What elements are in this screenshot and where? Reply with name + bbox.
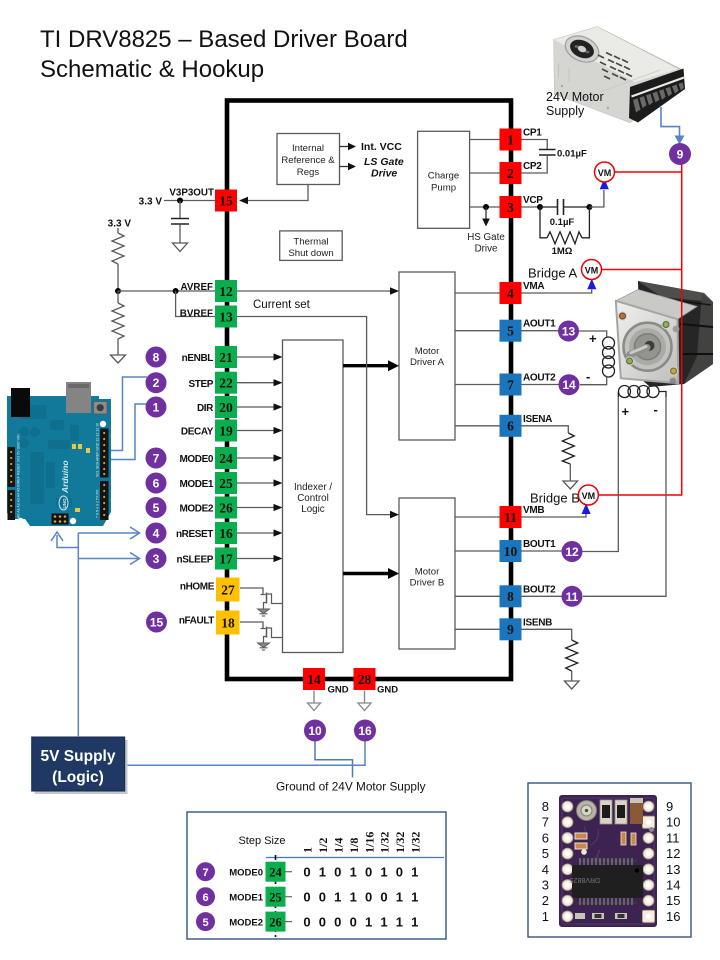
svg-text:Ground of 24V Motor Supply: Ground of 24V Motor Supply — [276, 780, 426, 794]
resistor 1M ohm on VCP — [540, 207, 589, 257]
svg-text:-: - — [654, 402, 658, 417]
svg-text:VM: VM — [598, 168, 612, 178]
svg-text:SCL SDA AREF GND 13 12 11 10: SCL SDA AREF GND 13 12 11 10 — [96, 423, 100, 477]
svg-text:+: + — [589, 331, 597, 346]
wire AOUT2 pin7 to node 14 — [522, 384, 559, 386]
svg-text:11: 11 — [566, 590, 579, 604]
table bits MODE0 row — [303, 865, 418, 880]
wire VMB pin11 to motor driver B — [455, 516, 500, 518]
pin label GND 28 — [377, 685, 398, 696]
svg-text:18: 18 — [221, 616, 235, 631]
svg-text:15: 15 — [219, 193, 233, 208]
svg-text:13: 13 — [666, 862, 680, 877]
svg-text:1/32: 1/32 — [409, 832, 423, 853]
svg-text:12: 12 — [219, 284, 233, 299]
svg-text:VMB: VMB — [523, 505, 544, 516]
svg-text:VM: VM — [582, 491, 596, 501]
svg-text:24: 24 — [219, 451, 233, 466]
svg-text:IOREF RESET 3V3 5V GND VIN: IOREF RESET 3V3 5V GND VIN — [17, 434, 21, 487]
svg-text:AOUT2: AOUT2 — [523, 373, 556, 384]
svg-text:13: 13 — [562, 325, 576, 339]
pin 16 nRESET — [215, 522, 237, 544]
svg-text:Regs: Regs — [297, 167, 320, 178]
table label MODE1 — [229, 893, 264, 904]
pin 7 AOUT2 — [500, 374, 522, 396]
ground under transistor nHOME — [258, 609, 270, 616]
arduino uno board photo — [7, 382, 111, 526]
svg-text:0: 0 — [365, 865, 372, 880]
svg-text:Indexer /: Indexer / — [294, 482, 332, 493]
wire BOUT1 pin10 to node 12 — [522, 550, 563, 552]
svg-text:nHOME: nHOME — [180, 582, 215, 593]
svg-text:26: 26 — [219, 500, 233, 515]
svg-text:0: 0 — [334, 865, 341, 880]
pin label nFAULT — [179, 616, 214, 627]
svg-text:1: 1 — [334, 890, 341, 905]
svg-text:BVREF: BVREF — [180, 309, 213, 320]
pin label VCP — [523, 195, 543, 206]
table header 1 — [301, 847, 315, 853]
wire coil A to node 14 — [580, 376, 607, 385]
wire nENBL pin21 to indexer — [237, 353, 283, 360]
svg-text:15: 15 — [150, 616, 164, 630]
resistor sense B — [566, 640, 578, 681]
svg-text:12: 12 — [565, 545, 579, 559]
node Current set label — [253, 299, 311, 311]
inductor coil B motor winding — [618, 386, 666, 398]
table bits MODE1 row — [303, 890, 418, 905]
pin 11 VMB — [500, 506, 522, 528]
svg-text:MODE0: MODE0 — [229, 868, 263, 879]
svg-text:MODE2: MODE2 — [229, 917, 263, 928]
wire VMA pin4 to motor driver A — [455, 292, 500, 294]
svg-text:1/4: 1/4 — [332, 838, 346, 853]
node 6 table — [196, 887, 215, 906]
pin label AVREF — [181, 282, 213, 293]
wire BOUT2 pin8 to node 11 — [522, 595, 562, 597]
svg-text:15: 15 — [666, 893, 680, 908]
pin label DIR — [197, 403, 214, 414]
arrow LS Gate Drive — [340, 156, 404, 180]
node dot VCP right — [586, 204, 592, 210]
svg-text:VMA: VMA — [523, 281, 544, 292]
node 9 VM supply — [669, 143, 691, 165]
svg-text:0: 0 — [319, 890, 326, 905]
pin 1 CP1 — [500, 129, 522, 151]
wire charge pump to pin 2 — [470, 172, 500, 174]
wire 3.3V to pin 15 — [164, 200, 215, 202]
wire node 16 to 5V supply — [128, 742, 366, 766]
svg-text:25: 25 — [269, 891, 282, 905]
arrow HS Gate Drive — [467, 207, 505, 255]
pin 22 STEP — [215, 372, 237, 394]
minus polarity coil B — [654, 402, 658, 417]
node 11 BOUT2 — [562, 586, 583, 607]
wire MODE1 pin25 to indexer — [237, 479, 283, 486]
node 5 MODE2 — [146, 497, 167, 518]
node Bridge B label — [530, 491, 580, 506]
pin 20 DIR — [215, 396, 237, 418]
wire red VM top to trunk — [615, 171, 682, 173]
svg-text:17: 17 — [219, 551, 233, 566]
pin 18 nFAULT — [216, 611, 240, 635]
transistor open-drain nFAULT — [261, 627, 283, 643]
svg-text:nENBL: nENBL — [182, 353, 214, 364]
svg-text:DIR: DIR — [197, 403, 214, 414]
svg-text:CP2: CP2 — [523, 161, 542, 172]
table pin 26 MODE2 — [266, 912, 293, 932]
table header 1/32 c — [409, 832, 423, 853]
svg-text:0: 0 — [334, 914, 341, 929]
board pin numbers left column — [542, 799, 549, 924]
svg-text:0: 0 — [303, 865, 310, 880]
table header 1/16 — [362, 832, 376, 853]
pin label BOUT1 — [523, 539, 556, 550]
node 3.3V divider label — [108, 219, 132, 230]
svg-text:+: + — [622, 404, 630, 419]
svg-text:nRESET: nRESET — [176, 529, 213, 540]
svg-text:VCP: VCP — [523, 195, 543, 206]
svg-text:Motor: Motor — [415, 346, 440, 357]
wire BOUT2 from motor driver B — [455, 595, 500, 597]
wire BVREF branch to pin 13 — [176, 291, 215, 317]
pin label VMA — [523, 281, 544, 292]
svg-text:10: 10 — [504, 544, 518, 559]
svg-text:3.3 V: 3.3 V — [139, 197, 163, 208]
wire charge pump to pin 1 — [470, 139, 500, 141]
svg-text:14: 14 — [666, 878, 680, 893]
wire nRESET pin16 to indexer — [237, 529, 283, 536]
resistor divider bottom — [112, 291, 124, 355]
node 5 table — [196, 912, 215, 931]
table pin 24 MODE0 — [266, 862, 293, 882]
svg-text:10: 10 — [308, 724, 322, 738]
wire AVREF rail to pin 12 — [118, 290, 215, 292]
wire node 12 to coil B left lead — [583, 397, 619, 552]
svg-text:1: 1 — [507, 132, 514, 147]
arrow junction up to arduino power — [51, 532, 78, 548]
pin 6 ISENA — [500, 415, 522, 437]
wire STEP pin22 to indexer — [237, 379, 283, 386]
svg-text:Shut down: Shut down — [288, 248, 333, 259]
wire nHOME pin27 to transistor gate — [240, 588, 263, 595]
wire AOUT1 from motor driver A — [455, 330, 500, 332]
svg-text:0: 0 — [319, 914, 326, 929]
wire BVREF to Motor Driver B — [237, 317, 399, 519]
node 7 MODE0 — [146, 448, 167, 469]
node 16 GND — [354, 720, 376, 742]
svg-text:Schematic & Hookup: Schematic & Hookup — [40, 56, 264, 83]
plus polarity coil B — [622, 404, 630, 419]
svg-text:5: 5 — [542, 846, 549, 861]
svg-text:7: 7 — [507, 377, 514, 392]
pin label ISENA — [523, 414, 552, 425]
svg-text:9: 9 — [507, 622, 514, 637]
ground under divider — [111, 355, 126, 363]
svg-text:0: 0 — [380, 890, 387, 905]
svg-text:16: 16 — [358, 724, 372, 738]
svg-text:10: 10 — [666, 815, 680, 830]
svg-text:1: 1 — [411, 914, 418, 929]
pin 10 BOUT1 — [500, 540, 522, 562]
node 14 AOUT2 — [559, 374, 580, 395]
pin label STEP — [188, 379, 213, 390]
wire node 10 to ground label — [315, 742, 353, 778]
svg-text:Thermal: Thermal — [293, 237, 328, 248]
svg-text:A0 A1 A2 A3 A4 A5: A0 A1 A2 A3 A4 A5 — [17, 488, 21, 518]
svg-text:Reference &: Reference & — [281, 155, 335, 166]
node 12 BOUT1 — [562, 541, 583, 562]
pin label MODE2 — [179, 504, 213, 515]
svg-text:5V Supply: 5V Supply — [41, 748, 116, 765]
wire MODE2 pin26 to indexer — [237, 504, 283, 511]
svg-text:Charge: Charge — [428, 171, 459, 182]
svg-text:27: 27 — [221, 583, 235, 598]
svg-text:5: 5 — [153, 501, 160, 515]
table label MODE2 — [229, 917, 263, 928]
ground under transistor nFAULT — [258, 643, 270, 650]
charge pump block — [418, 131, 470, 228]
svg-text:1/8: 1/8 — [347, 838, 361, 853]
pin 17 nSLEEP — [215, 548, 237, 570]
svg-text:24V Motor: 24V Motor — [546, 90, 604, 104]
svg-text:4: 4 — [507, 286, 514, 301]
node junction dot V3P3OUT — [177, 198, 183, 204]
svg-text:Current set: Current set — [253, 299, 311, 311]
svg-text:1: 1 — [301, 847, 315, 853]
inductor coil A motor winding — [603, 337, 615, 377]
svg-text:1: 1 — [380, 865, 387, 880]
wire from Internal Regs to pin 15 — [239, 185, 308, 205]
svg-text:Supply: Supply — [546, 104, 585, 118]
svg-text:UNO: UNO — [62, 498, 67, 508]
svg-text:Bridge A: Bridge A — [528, 266, 577, 281]
svg-text:Control: Control — [297, 493, 329, 504]
wire ISENA pin6 to sense resistor — [522, 426, 569, 433]
wire DECAY pin19 to indexer — [237, 427, 283, 434]
ground under bypass cap — [173, 243, 188, 252]
wire ISENA from motor driver A — [455, 425, 500, 427]
pin label ISENB — [523, 617, 552, 628]
svg-text:6: 6 — [153, 477, 160, 491]
svg-text:1: 1 — [380, 914, 387, 929]
transistor open-drain nHOME — [261, 593, 283, 609]
svg-text:1: 1 — [350, 865, 357, 880]
svg-text:6: 6 — [507, 419, 514, 434]
table header 1/4 — [332, 838, 346, 853]
ground under sense resistor A — [563, 481, 578, 489]
pin 13 BVREF — [215, 306, 237, 328]
svg-text:AVREF: AVREF — [181, 282, 213, 293]
svg-text:2: 2 — [153, 376, 160, 390]
wire nFAULT pin18 to transistor gate — [240, 622, 263, 629]
svg-text:3.3 V: 3.3 V — [108, 219, 132, 230]
svg-text:11: 11 — [666, 830, 680, 845]
svg-text:1/32: 1/32 — [393, 832, 407, 853]
pin label CP1 — [523, 128, 542, 139]
wire node 13 to coil A — [579, 331, 607, 337]
svg-text:7: 7 — [202, 867, 208, 879]
pin 24 MODE0 — [215, 447, 237, 469]
svg-text:1: 1 — [365, 914, 372, 929]
svg-text:0: 0 — [303, 914, 310, 929]
wire VCP out of pin 3 — [522, 206, 541, 208]
svg-text:13: 13 — [219, 309, 233, 324]
svg-text:Drive: Drive — [371, 168, 397, 180]
svg-text:Logic: Logic — [301, 504, 325, 515]
indexer / control logic block — [283, 340, 344, 653]
svg-text:MODE1: MODE1 — [179, 479, 213, 490]
wire 5V supply up to arduino junction — [77, 533, 79, 737]
VM node top (VCP) — [595, 162, 615, 189]
wire AOUT2 from motor driver A — [455, 384, 500, 386]
VM node bridge A — [582, 260, 602, 290]
resistor sense A — [562, 433, 574, 481]
24V motor supply unit photo — [554, 27, 685, 123]
wire AOUT1 pin5 to node 13 — [522, 330, 560, 332]
svg-text:12: 12 — [666, 846, 680, 861]
wire VCP to VM node — [589, 190, 604, 207]
stepper motor photo — [616, 281, 713, 387]
pin label BVREF — [180, 309, 213, 320]
thick bus arrow indexer to motor driver A — [343, 360, 399, 371]
node 13 AOUT1 — [558, 321, 579, 342]
svg-text:Step Size: Step Size — [238, 835, 285, 847]
pin 26 MODE2 — [215, 497, 237, 519]
svg-text:3: 3 — [542, 878, 549, 893]
svg-text:6: 6 — [202, 892, 208, 904]
svg-text:7: 7 — [542, 815, 549, 830]
svg-text:8: 8 — [507, 589, 514, 604]
thermal shutdown block — [280, 231, 343, 261]
svg-text:11: 11 — [504, 510, 517, 525]
capacitor 0.01uF between CP1 CP2 — [522, 140, 587, 174]
5V supply logic box — [32, 737, 128, 794]
svg-text:0: 0 — [303, 890, 310, 905]
svg-text:Driver B: Driver B — [410, 578, 445, 589]
svg-text:16: 16 — [666, 909, 680, 924]
capacitor C-bypass on V3P3OUT — [171, 201, 189, 244]
svg-text:25: 25 — [219, 476, 233, 491]
svg-text:DRV8825: DRV8825 — [570, 876, 600, 883]
svg-text:1: 1 — [319, 865, 326, 880]
svg-text:CP1: CP1 — [523, 128, 542, 139]
table label MODE0 — [229, 868, 263, 879]
svg-text:TI DRV8825 – Based Driver Boar: TI DRV8825 – Based Driver Board — [40, 26, 408, 53]
svg-text:Arduino: Arduino — [60, 460, 70, 494]
pin label nRESET — [176, 529, 213, 540]
pin label DECAY — [181, 427, 214, 438]
wire red VM B to trunk — [598, 494, 681, 496]
arrow GND pin28 down — [358, 691, 371, 711]
arrow Int. VCC — [340, 141, 403, 153]
pin label nHOME — [180, 582, 215, 593]
pin 25 MODE1 — [215, 472, 237, 494]
table header 1/2 — [316, 838, 330, 853]
svg-text:3: 3 — [153, 552, 160, 566]
svg-text:1: 1 — [350, 890, 357, 905]
svg-text:MODE1: MODE1 — [229, 893, 264, 904]
wire red VM trunk vertical — [681, 165, 683, 496]
svg-text:20: 20 — [219, 400, 233, 415]
node 1 DIR — [146, 397, 167, 418]
label 24V Motor Supply — [546, 90, 604, 118]
node 3 nSLEEP — [146, 548, 167, 569]
node 4 nRESET — [146, 523, 167, 544]
pin label AOUT1 — [523, 319, 556, 330]
svg-text:1: 1 — [396, 890, 403, 905]
svg-text:MODE2: MODE2 — [179, 504, 213, 515]
svg-text:28: 28 — [358, 672, 372, 687]
wire red VM A to trunk — [602, 269, 682, 271]
wire arduino to node 2 STEP — [110, 377, 147, 451]
svg-text:24: 24 — [269, 866, 282, 880]
node junction dot AVREF rail — [115, 288, 121, 294]
wire DIR pin20 to indexer — [237, 403, 283, 410]
step size table frame — [187, 812, 446, 939]
table header 1/8 — [347, 838, 361, 853]
node 2 STEP — [146, 372, 167, 393]
node 7 table — [196, 862, 215, 881]
svg-text:Bridge B: Bridge B — [530, 491, 580, 506]
pin 8 BOUT2 — [500, 585, 522, 607]
svg-text:LS Gate: LS Gate — [364, 156, 404, 168]
VM node bridge B — [578, 485, 598, 514]
node 8 nENBL — [146, 347, 167, 368]
svg-text:1/2: 1/2 — [316, 838, 330, 853]
pin label MODE1 — [179, 479, 213, 490]
pin 4 VMA — [500, 282, 522, 304]
pin 15 V3P3OUT — [215, 190, 237, 212]
svg-text:Pump: Pump — [431, 183, 456, 194]
svg-text:DECAY: DECAY — [181, 427, 214, 438]
svg-text:0: 0 — [350, 914, 357, 929]
svg-text:0: 0 — [396, 865, 403, 880]
svg-text:Int. VCC: Int. VCC — [361, 141, 402, 153]
svg-text:ISENB: ISENB — [523, 617, 552, 628]
wire psu to node 9 — [661, 107, 685, 145]
svg-text:21: 21 — [219, 350, 233, 365]
svg-text:BOUT1: BOUT1 — [523, 539, 556, 550]
pin 5 AOUT1 — [500, 320, 522, 342]
table bits MODE2 row — [303, 914, 418, 929]
node dot VCP left — [537, 204, 543, 210]
svg-text:9: 9 — [677, 148, 684, 162]
node 10 GND — [304, 720, 326, 742]
wire VMA pin4 to VM node A — [522, 290, 592, 294]
node 3.3V rail label — [139, 197, 163, 208]
svg-text:5: 5 — [202, 917, 208, 929]
wire BOUT1 from motor driver B — [455, 550, 500, 552]
svg-text:0.1µF: 0.1µF — [550, 217, 575, 228]
wire MODE0 pin24 to indexer — [237, 454, 283, 461]
svg-text:AOUT1: AOUT1 — [523, 319, 556, 330]
svg-text:STEP: STEP — [188, 379, 213, 390]
minus polarity coil A — [586, 369, 590, 384]
svg-text:1: 1 — [396, 914, 403, 929]
wire nSLEEP pin17 to indexer — [237, 555, 283, 562]
svg-text:1: 1 — [153, 401, 160, 415]
svg-text:16: 16 — [219, 526, 233, 541]
pin label GND 14 — [328, 685, 349, 696]
svg-text:-: - — [586, 369, 590, 384]
table header 1/32 b — [393, 832, 407, 853]
svg-text:GND: GND — [328, 685, 349, 696]
svg-text:9: 9 — [666, 799, 673, 814]
motor driver A block — [399, 272, 455, 440]
svg-text:2: 2 — [542, 893, 549, 908]
node 6 MODE1 — [146, 473, 167, 494]
